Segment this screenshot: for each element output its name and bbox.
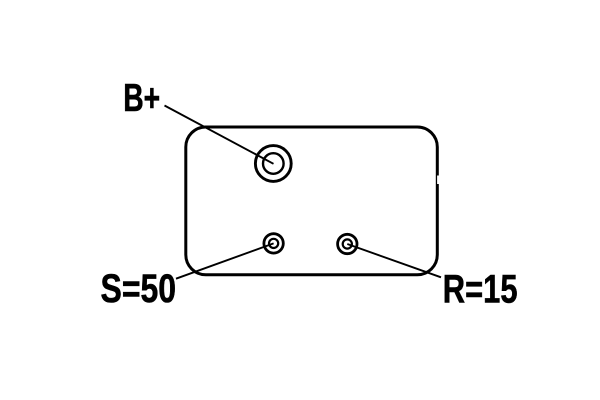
svg-text:R=15: R=15	[443, 266, 518, 311]
svg-text:S=50: S=50	[101, 265, 177, 310]
svg-text:B+: B+	[123, 77, 160, 120]
